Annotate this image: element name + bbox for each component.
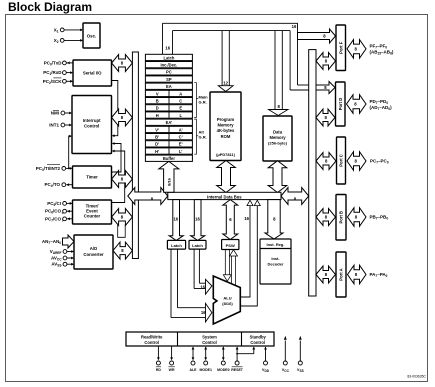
svg-text:Decoder: Decoder — [267, 262, 283, 267]
svg-text:V: V — [156, 91, 159, 96]
svg-text:Control: Control — [84, 123, 99, 128]
svg-text:C’: C’ — [179, 135, 183, 140]
svg-text:V’: V’ — [155, 127, 159, 132]
svg-text:L’: L’ — [179, 149, 182, 154]
svg-text:SP: SP — [166, 77, 172, 82]
svg-text:NMI: NMI — [51, 111, 59, 116]
svg-text:Buffer: Buffer — [163, 156, 175, 161]
svg-text:Memory: Memory — [269, 135, 286, 140]
svg-text:EA: EA — [166, 84, 172, 89]
svg-text:PC3/TI/INT2: PC3/TI/INT2 — [36, 166, 61, 172]
svg-text:PC5/CI: PC5/CI — [47, 201, 61, 207]
svg-text:RD: RD — [156, 368, 162, 372]
svg-text:VAREF: VAREF — [50, 249, 62, 255]
svg-text:Port C: Port C — [339, 154, 344, 167]
svg-text:Counter: Counter — [84, 214, 101, 219]
svg-text:PC7/CO: PC7/CO — [45, 216, 62, 222]
svg-text:Inc./Dec.: Inc./Dec. — [160, 63, 177, 68]
svg-text:Read/Write: Read/Write — [141, 334, 163, 339]
svg-text:PC7–PC0: PC7–PC0 — [370, 159, 389, 165]
svg-text:Control: Control — [144, 340, 159, 345]
svg-text:ROM: ROM — [221, 134, 231, 139]
svg-text:Inst. Reg.: Inst. Reg. — [266, 242, 284, 247]
svg-text:Serial I/O: Serial I/O — [83, 71, 102, 76]
svg-text:Port D: Port D — [338, 98, 343, 111]
svg-text:D: D — [156, 106, 159, 111]
svg-text:MODE0: MODE0 — [217, 368, 230, 372]
svg-text:X1: X1 — [54, 27, 59, 33]
svg-text:AVSS: AVSS — [51, 262, 61, 268]
svg-text:AN7–AN0: AN7–AN0 — [42, 239, 61, 245]
svg-text:PC6/CO: PC6/CO — [45, 209, 62, 215]
svg-text:16: 16 — [173, 216, 178, 221]
svg-text:12: 12 — [223, 80, 228, 85]
svg-text:PD7–PD0: PD7–PD0 — [370, 99, 389, 105]
svg-text:Standby: Standby — [250, 334, 267, 339]
svg-text:PA7–PA0: PA7–PA0 — [370, 272, 388, 278]
svg-text:Port B: Port B — [339, 211, 344, 224]
svg-text:A/D: A/D — [90, 246, 97, 251]
svg-text:AVCC: AVCC — [51, 256, 62, 262]
svg-text:Port F: Port F — [338, 41, 343, 54]
svg-text:EA’: EA’ — [166, 120, 173, 125]
svg-text:E’: E’ — [179, 142, 183, 147]
svg-text:Data: Data — [273, 130, 283, 135]
svg-text:(256-byte): (256-byte) — [268, 141, 288, 146]
svg-text:Latch: Latch — [163, 55, 174, 60]
svg-text:PB7–PB0: PB7–PB0 — [370, 215, 389, 221]
svg-text:PSW: PSW — [226, 243, 235, 248]
svg-text:H’: H’ — [155, 149, 159, 154]
svg-text:WR: WR — [169, 368, 175, 372]
svg-text:16: 16 — [244, 216, 249, 221]
svg-text:8/16: 8/16 — [166, 177, 171, 186]
svg-text:(AD7–AD0): (AD7–AD0) — [370, 105, 393, 111]
svg-text:G.R.: G.R. — [199, 99, 207, 104]
svg-text:INT1: INT1 — [49, 123, 59, 128]
svg-text:PC0/TxD: PC0/TxD — [44, 60, 63, 66]
svg-text:16: 16 — [292, 24, 297, 29]
svg-text:Port A: Port A — [339, 268, 344, 280]
svg-text:ALE: ALE — [190, 368, 198, 372]
svg-text:X2: X2 — [54, 38, 59, 44]
svg-text:D’: D’ — [155, 142, 159, 147]
svg-text:Internal Data Bus: Internal Data Bus — [207, 194, 242, 199]
svg-text:Inst.: Inst. — [271, 256, 279, 261]
svg-text:PC: PC — [166, 70, 172, 75]
svg-text:ALU: ALU — [223, 295, 231, 300]
svg-text:83-003635C: 83-003635C — [407, 375, 426, 379]
svg-text:A: A — [179, 91, 182, 96]
svg-text:Converter: Converter — [83, 252, 104, 257]
svg-text:PC1/RxD: PC1/RxD — [43, 70, 62, 76]
svg-text:4K-bytes: 4K-bytes — [217, 128, 235, 133]
svg-text:(μPD7811): (μPD7811) — [216, 152, 236, 157]
svg-text:(AB15–AB8): (AB15–AB8) — [370, 50, 394, 56]
svg-text:MODE1: MODE1 — [199, 368, 212, 372]
svg-text:RESET: RESET — [231, 368, 244, 372]
svg-text:G.R.: G.R. — [199, 134, 207, 139]
svg-text:E: E — [179, 106, 182, 111]
svg-text:16: 16 — [201, 310, 206, 315]
svg-text:A’: A’ — [179, 127, 183, 132]
svg-text:(8/16): (8/16) — [222, 301, 233, 306]
svg-text:System: System — [202, 334, 217, 339]
svg-text:Latch: Latch — [171, 243, 182, 248]
svg-text:Control: Control — [250, 340, 265, 345]
svg-text:16: 16 — [195, 216, 200, 221]
svg-text:PF7–PF0: PF7–PF0 — [370, 44, 388, 50]
svg-text:C: C — [179, 99, 182, 104]
svg-text:B’: B’ — [155, 135, 159, 140]
svg-text:Program: Program — [217, 117, 234, 122]
svg-text:PC4/TO: PC4/TO — [45, 182, 61, 188]
svg-text:H: H — [156, 113, 159, 118]
svg-text:Interrupt: Interrupt — [83, 118, 101, 123]
svg-text:Timer: Timer — [86, 175, 98, 180]
svg-text:PC2/SCK: PC2/SCK — [43, 79, 63, 85]
svg-text:B: B — [156, 99, 159, 104]
svg-text:Latch: Latch — [192, 243, 203, 248]
svg-text:Osc.: Osc. — [87, 33, 97, 38]
svg-text:16: 16 — [165, 45, 170, 50]
svg-text:Memory: Memory — [217, 123, 234, 128]
svg-text:16: 16 — [200, 284, 205, 289]
svg-text:Block Diagram: Block Diagram — [8, 0, 92, 14]
svg-text:Control: Control — [202, 340, 217, 345]
